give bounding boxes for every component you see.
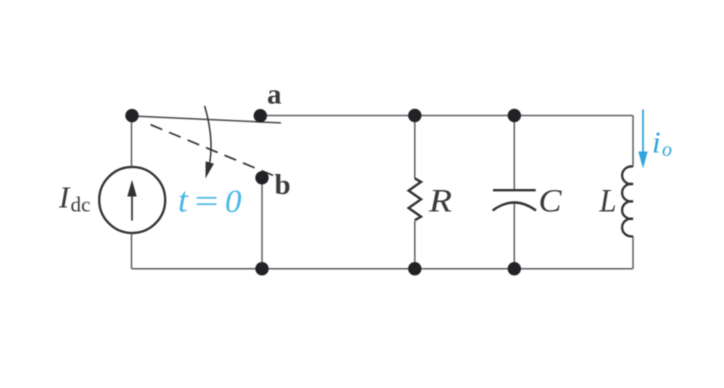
svg-text:=: =	[192, 183, 221, 219]
svg-text:i: i	[652, 125, 661, 160]
svg-text:t: t	[178, 181, 189, 220]
svg-text:dc: dc	[71, 193, 91, 217]
svg-text:a: a	[267, 78, 282, 110]
svg-text:C: C	[539, 183, 562, 219]
svg-text:0: 0	[225, 184, 242, 220]
svg-text:L: L	[599, 183, 617, 219]
svg-text:b: b	[275, 169, 291, 201]
svg-text:R: R	[428, 183, 452, 219]
svg-text:I: I	[58, 180, 71, 215]
svg-text:o: o	[662, 139, 672, 161]
